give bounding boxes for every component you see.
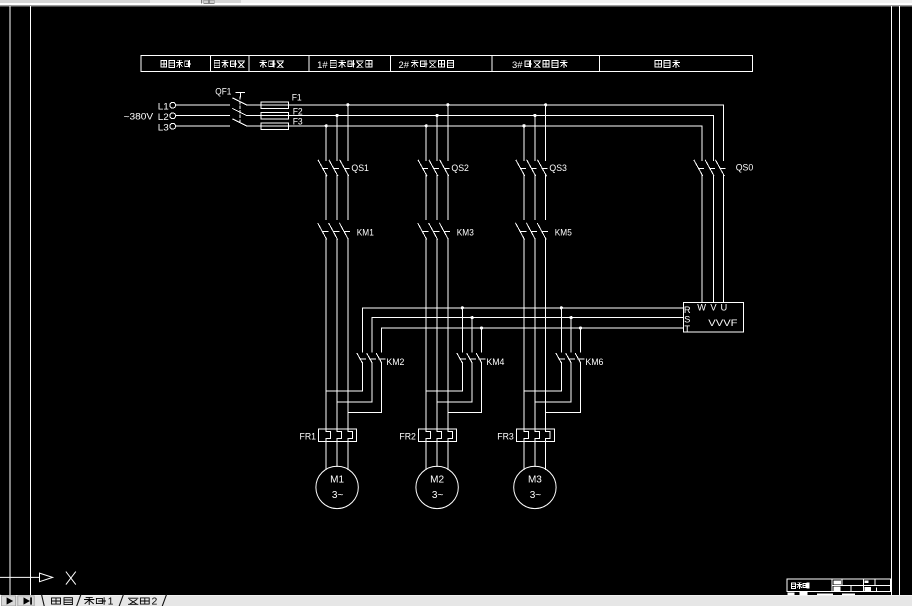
UCS icon arrowhead xyxy=(40,573,53,582)
contactor KM6 pole 1 xyxy=(556,354,561,363)
wire KM2 phase 2 lower xyxy=(371,362,373,402)
wire FR1 to motor M1 phase 3 xyxy=(347,442,349,470)
svg-text:1: 1 xyxy=(108,596,114,606)
frame right outer line xyxy=(899,7,901,595)
tab 布局2 text xyxy=(129,598,138,604)
wire KM2 phase 2 merge horizontal xyxy=(337,401,372,403)
junction dots on buses xyxy=(346,103,349,106)
FR2 heater jog phase 2 xyxy=(436,429,438,431)
contactor KM5 pole 2 xyxy=(527,223,536,239)
FR1 heater jog phase 2 xyxy=(336,429,338,431)
contactor KM6 pole 3 xyxy=(575,354,580,363)
wire branch 2 L1-phase mid2 xyxy=(447,239,449,429)
wire KM6 phase 3 lower xyxy=(580,362,582,412)
frame right inner line xyxy=(891,7,893,595)
contactor KM5 pole 3 xyxy=(537,223,546,239)
title block xyxy=(787,579,890,592)
header table xyxy=(141,55,752,71)
wire branch 2 L2-phase mid2 xyxy=(436,239,438,429)
wire FR3 to motor M3 phase 2 xyxy=(534,442,536,467)
tab 布局1 text xyxy=(85,597,94,604)
contactor KM2 pole 1 xyxy=(357,354,362,363)
header cell text 隔离开关 xyxy=(214,60,220,67)
breaker QF1 actuator T xyxy=(236,92,245,94)
node L1 terminal xyxy=(170,102,176,108)
wire KM2 phase 3 lower xyxy=(381,362,383,412)
wire KM4 phase 3 upper xyxy=(481,328,483,352)
switch QS3 pole 3 xyxy=(440,160,449,176)
wire branch 2 L2-phase mid1 xyxy=(436,175,438,219)
contactor KM4 pole 1 xyxy=(457,354,462,363)
switch QS5 pole 2 xyxy=(527,160,536,176)
wire KM6 phase 3 upper xyxy=(580,328,582,352)
wire FR3 to motor M3 phase 1 xyxy=(523,442,525,470)
fuse F2 xyxy=(246,114,261,116)
contactor KM5 pole 1 xyxy=(516,223,525,239)
svg-text:KM6: KM6 xyxy=(585,357,603,367)
wire branch 3 L3-phase mid1 xyxy=(523,175,525,219)
wire branch 2 L3-phase upper xyxy=(425,126,427,161)
wire FR3 to motor M3 phase 3 xyxy=(545,442,547,470)
svg-text:R: R xyxy=(684,305,691,315)
FR1 heater jog phase 1 xyxy=(325,429,327,431)
wire bus L3 xyxy=(289,125,703,127)
motor M1 circle xyxy=(316,466,358,508)
motor M3 circle xyxy=(514,466,556,508)
wire FR1 to motor M1 phase 1 xyxy=(325,442,327,470)
svg-text:VVVF: VVVF xyxy=(708,318,737,329)
svg-text:~380V: ~380V xyxy=(124,111,155,121)
svg-text:3~: 3~ xyxy=(530,490,542,501)
VFD U1 box xyxy=(683,303,743,333)
wire KM2 phase 1 upper xyxy=(361,308,363,352)
wire branch 1 L1-phase mid2 xyxy=(347,239,349,429)
svg-text:KM1: KM1 xyxy=(357,228,374,239)
FR1 heater jog phase 3 xyxy=(347,429,349,431)
wire KM4 phase 1 lower xyxy=(461,362,463,391)
wire branch 3 L3-phase upper xyxy=(523,126,525,161)
svg-text:T: T xyxy=(684,324,690,334)
wire branch 3 L1-phase mid1 xyxy=(545,175,547,219)
wire branch 1 L3-phase mid2 xyxy=(325,239,327,429)
switch QS5 pole 3 xyxy=(538,160,547,176)
title block text xyxy=(788,580,872,595)
wire KM4 phase 3 lower xyxy=(481,362,483,412)
wire T line xyxy=(382,327,684,329)
switch QS5 pole 1 xyxy=(516,160,525,176)
svg-text:KM5: KM5 xyxy=(555,228,572,239)
wire L1 to QF1 xyxy=(176,104,230,106)
breaker QF1 pole 1 blade xyxy=(233,98,247,105)
breaker QF1 pole 2 blade xyxy=(233,109,247,116)
thermal relay FR1 box xyxy=(319,429,357,441)
contactor KM1 pole 3 xyxy=(340,223,349,239)
wire branch 1 L3-phase upper xyxy=(325,126,327,161)
svg-text:QS2: QS2 xyxy=(451,163,469,174)
wire bus L1 xyxy=(289,104,724,106)
switch QS3 pole 1 xyxy=(418,160,427,176)
wire branch 1 L3-phase mid1 xyxy=(325,175,327,219)
svg-text:QF1: QF1 xyxy=(215,86,231,97)
wire QS0 L2-phase lower xyxy=(712,175,714,302)
switch QS1 pole 2 xyxy=(329,160,338,176)
tab divider 2 xyxy=(77,595,81,606)
wire FR2 to motor M2 phase 3 xyxy=(447,442,449,470)
svg-text:F1: F1 xyxy=(292,93,302,104)
wire KM2 phase 3 merge horizontal xyxy=(348,412,382,414)
wire S line xyxy=(372,317,683,319)
contactor KM3 pole 2 xyxy=(429,223,438,239)
thermal relay FR2 box xyxy=(419,429,457,441)
svg-text:L2: L2 xyxy=(158,112,169,123)
wire branch 1 L2-phase mid2 xyxy=(336,239,338,429)
contactor KM1 pole 1 xyxy=(318,223,327,239)
wire FR2 to motor M2 phase 1 xyxy=(425,442,427,470)
FR2 heater jog phase 1 xyxy=(425,429,427,431)
wire KM6 phase 2 lower xyxy=(570,362,572,402)
contactor KM4 pole 2 xyxy=(467,354,472,363)
wire branch 1 L1-phase mid1 xyxy=(347,175,349,219)
wire branch 2 L3-phase mid1 xyxy=(425,175,427,219)
wire KM2 phase 1 lower xyxy=(361,362,363,391)
wire FR2 to motor M2 phase 2 xyxy=(436,442,438,467)
title block lower marks xyxy=(788,593,795,596)
wire KM6 phase 2 merge horizontal xyxy=(535,401,571,403)
svg-text:KM3: KM3 xyxy=(457,228,474,239)
switch QS1 pole 3 xyxy=(340,160,349,176)
svg-text:3#: 3# xyxy=(512,60,523,70)
FR3 heater jog phase 3 xyxy=(545,429,547,431)
wire branch 2 L3-phase mid2 xyxy=(425,239,427,429)
wire KM2 phase 2 upper xyxy=(371,318,373,352)
tab nav button 1 xyxy=(0,595,166,606)
svg-text:L1: L1 xyxy=(158,101,169,112)
junction dots on R/S/T xyxy=(461,306,464,309)
switch QS0 pole 1 xyxy=(694,160,703,176)
wire KM6 phase 3 merge horizontal xyxy=(546,412,581,414)
svg-text:FR2: FR2 xyxy=(399,432,416,442)
fuse F3 xyxy=(246,125,261,127)
tab nav button 2 xyxy=(18,596,34,606)
svg-text:L3: L3 xyxy=(158,122,169,133)
contactor KM2 pole 2 xyxy=(367,354,372,363)
motor M2 circle xyxy=(416,466,458,508)
wire branch 3 L1-phase mid2 xyxy=(545,239,547,429)
frame left inner line xyxy=(30,7,32,595)
bottom tab bar xyxy=(0,595,912,606)
svg-text:W: W xyxy=(697,303,706,313)
switch QS1 pole 1 xyxy=(318,160,327,176)
wire branch 3 L2-phase upper xyxy=(534,115,536,160)
UCS icon X letter xyxy=(66,572,75,584)
header cell text 变频器 xyxy=(655,61,661,67)
wire KM2 phase 3 upper xyxy=(381,328,383,352)
wire KM4 phase 1 upper xyxy=(461,308,463,352)
wire KM6 phase 1 upper xyxy=(560,308,562,352)
wire QS0 L3-phase upper xyxy=(701,126,703,161)
wire KM2 phase 1 merge horizontal xyxy=(326,390,362,392)
wire L2 to QF1 xyxy=(176,114,230,116)
wire KM6 phase 1 merge horizontal xyxy=(524,390,561,392)
svg-text:FR3: FR3 xyxy=(497,432,514,442)
wire QS0 L1-phase lower xyxy=(723,175,725,302)
wire branch 3 L2-phase mid2 xyxy=(534,239,536,429)
wire branch 1 L1-phase upper xyxy=(347,105,349,161)
wire KM6 phase 2 upper xyxy=(570,318,572,352)
svg-text:M2: M2 xyxy=(430,475,444,486)
wire KM4 phase 2 merge horizontal xyxy=(437,401,472,403)
wire KM4 phase 2 upper xyxy=(471,318,473,352)
svg-text:QS1: QS1 xyxy=(351,163,369,174)
wire KM4 phase 3 merge horizontal xyxy=(448,412,482,414)
breaker QF1 linkage dashed xyxy=(239,97,241,124)
thermal relay FR3 box xyxy=(516,429,554,441)
node L2 terminal xyxy=(170,113,176,119)
switch QS3 pole 2 xyxy=(429,160,438,176)
svg-text:M1: M1 xyxy=(330,475,344,486)
svg-text:3~: 3~ xyxy=(332,490,344,501)
header cell text 电源进线 xyxy=(161,61,167,67)
svg-text:V: V xyxy=(710,303,717,313)
svg-text:QS0: QS0 xyxy=(736,163,754,174)
breaker QF1 pole 3 blade xyxy=(233,119,247,126)
svg-text:1#: 1# xyxy=(317,60,328,70)
frame left outer line xyxy=(9,7,11,595)
svg-text:KM4: KM4 xyxy=(486,357,504,367)
svg-text:S: S xyxy=(684,315,690,325)
svg-text:3~: 3~ xyxy=(432,490,444,501)
wire KM4 phase 2 lower xyxy=(471,362,473,402)
contactor KM4 pole 3 xyxy=(476,354,481,363)
wire branch 1 L2-phase mid1 xyxy=(336,175,338,219)
svg-text:2: 2 xyxy=(152,596,158,606)
tab divider 1 xyxy=(42,595,45,606)
wire branch 3 L1-phase upper xyxy=(545,105,547,161)
contactor KM6 pole 2 xyxy=(566,354,571,363)
tab divider 4 xyxy=(162,595,166,606)
wire KM6 phase 1 lower xyxy=(560,362,562,391)
wire QS0 L3-phase lower xyxy=(701,175,703,302)
wire branch 2 L1-phase upper xyxy=(447,105,449,161)
contactor KM3 pole 1 xyxy=(418,223,427,239)
wire bus L2 xyxy=(289,114,714,116)
contactor KM3 pole 3 xyxy=(440,223,449,239)
switch QS0 pole 3 xyxy=(716,160,725,176)
svg-text:2#: 2# xyxy=(399,60,410,70)
wire branch 1 L2-phase upper xyxy=(336,115,338,160)
wire branch 3 L3-phase mid2 xyxy=(523,239,525,429)
fuse F1 xyxy=(246,104,261,106)
switch QS0 pole 2 xyxy=(705,160,714,176)
FR3 heater jog phase 1 xyxy=(523,429,525,431)
wire R line xyxy=(362,307,683,309)
tab 模型 text xyxy=(52,598,61,604)
svg-text:U: U xyxy=(721,303,728,313)
wire branch 2 L1-phase mid1 xyxy=(447,175,449,219)
wire QS0 L1-phase upper xyxy=(723,105,725,161)
wire L3 to QF1 xyxy=(176,125,230,127)
wire KM4 phase 1 merge horizontal xyxy=(426,390,462,392)
top scrollbar strip xyxy=(0,0,912,7)
contactor KM2 pole 3 xyxy=(376,354,381,363)
wire QS0 L2-phase upper xyxy=(712,115,714,160)
header cell text 熔断器 xyxy=(260,60,266,67)
contactor KM1 pole 2 xyxy=(329,223,338,239)
FR3 heater jog phase 2 xyxy=(534,429,536,431)
svg-text:QS3: QS3 xyxy=(549,163,567,174)
wire branch 3 L2-phase mid1 xyxy=(534,175,536,219)
node L3 terminal xyxy=(170,123,176,129)
svg-text:KM2: KM2 xyxy=(386,357,404,367)
svg-text:M3: M3 xyxy=(528,475,542,486)
tab divider 3 xyxy=(119,595,123,606)
FR2 heater jog phase 3 xyxy=(447,429,449,431)
wire branch 2 L2-phase upper xyxy=(436,115,438,160)
svg-text:FR1: FR1 xyxy=(300,432,317,442)
wire FR1 to motor M1 phase 2 xyxy=(336,442,338,467)
UCS icon X axis line xyxy=(0,576,40,578)
